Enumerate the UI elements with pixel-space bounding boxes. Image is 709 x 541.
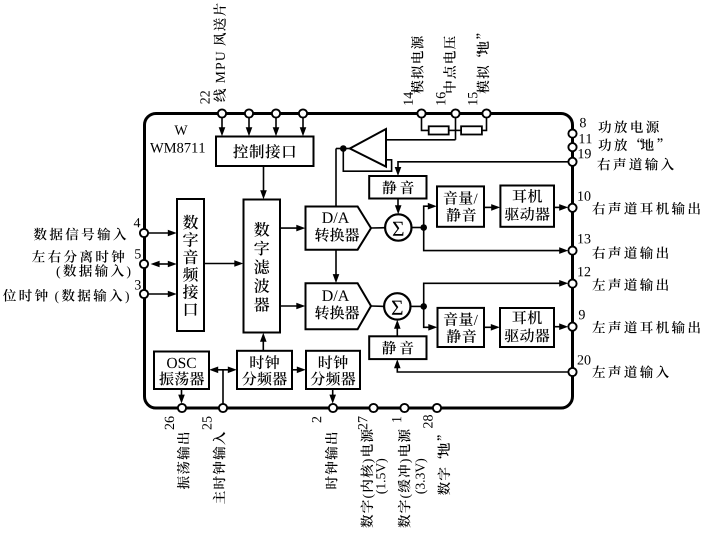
wire ctrl pin22 down-arrow <box>221 118 223 132</box>
label 右声道耳机输出 <box>592 202 700 215</box>
wire node B to pin12 left-line-out arrow <box>424 283 563 306</box>
pin right #19 <box>568 158 576 166</box>
label number 1 <box>392 417 401 422</box>
block control-interface 控制接口 <box>216 137 314 167</box>
wire mute1 to SUM1 down-arrow <box>397 199 399 210</box>
pin bottom #26 <box>178 404 186 412</box>
label pin2 时钟输出 <box>325 433 338 489</box>
label number 13 <box>578 234 590 243</box>
label pin25 主时钟输入 <box>213 432 226 504</box>
block volume-mute2 音量/静音 <box>438 308 485 347</box>
wire op-amp output down to DAC1 <box>335 149 337 207</box>
label number 28 <box>423 415 432 428</box>
label number 16 <box>436 92 445 104</box>
wire pin4 to audio-interface arrow <box>148 232 172 234</box>
wire pin20 left-channel-input to mute2 <box>397 364 568 372</box>
label number 27 <box>358 416 367 429</box>
label 功放电源 <box>598 121 658 134</box>
label pin14 模拟电源 <box>411 36 424 93</box>
wire node A to volume-mute1 arrow <box>424 206 432 227</box>
resistor R2 <box>461 126 482 134</box>
label number 19 <box>579 149 591 158</box>
wire headphone-driver2 to pin9 arrow <box>554 326 563 328</box>
wire mute2 to SUM2 up-arrow <box>396 325 398 337</box>
wire pin19 right-channel-input to mute1 <box>398 162 568 171</box>
wire ctrl pin b down-arrow <box>248 118 250 132</box>
block headphone-driver2 耳机驱动器 <box>500 308 554 347</box>
wire digital-filter to DAC2 arrow <box>280 305 300 307</box>
pin top x421.5 #14 <box>417 109 425 117</box>
label number 22 <box>200 91 209 104</box>
label number 4 <box>134 218 141 227</box>
chip label W WM8711 <box>174 126 187 135</box>
label number 14 <box>404 92 413 105</box>
pin right #11 <box>568 143 576 151</box>
pin right #20 <box>568 368 576 376</box>
block clock-divider2 时钟分频器 <box>306 351 360 389</box>
wire DAC2 to SUM2 <box>371 305 384 307</box>
wire SUM2 to node B <box>411 305 424 307</box>
label number 15 <box>468 92 477 104</box>
label number 8 <box>580 118 586 127</box>
wire clock-divider1 to clock-divider2 arrow <box>292 369 301 371</box>
label 左声道输入 <box>592 365 669 378</box>
block digital-audio-interface 数字音频接口 <box>177 199 204 331</box>
label pin27 数字(内核)电源 <box>360 429 374 527</box>
label 左声道输出 <box>592 278 668 291</box>
pin right #8 <box>568 130 576 138</box>
block oscillator OSC 振荡器 <box>154 352 209 390</box>
wire pin5 to audio-interface double-arrow <box>158 263 169 265</box>
op-amp VMID buffer <box>350 129 386 167</box>
wire volume-mute2 to headphone-driver2 arrow <box>484 326 495 328</box>
pin bottom #2 <box>329 404 337 412</box>
wire node A to pin13 right-line-out arrow <box>424 228 563 251</box>
block headphone-driver1 耳机驱动器 <box>500 186 554 227</box>
block mute2 静音 <box>369 336 426 359</box>
wire oscillator to pin26 arrow <box>181 389 183 399</box>
label number 9 <box>579 310 585 319</box>
pin left #5 <box>140 260 148 268</box>
pin left #3 <box>140 290 148 298</box>
wire oscillator to clock-divider1 double-arrow <box>214 369 232 371</box>
wire DAC1 to SUM1 <box>371 227 385 229</box>
wire op-amp output <box>336 148 350 150</box>
label number 5 <box>135 249 141 258</box>
block mute1 静音 <box>369 176 426 199</box>
wire ctrl pin c down-arrow <box>275 118 277 132</box>
resistor R1 <box>429 126 449 134</box>
label pin15 模拟地 <box>476 34 489 94</box>
pin bottom #28 <box>433 404 441 412</box>
label number 12 <box>578 267 590 276</box>
block clock-divider1 时钟分频器 <box>237 351 292 389</box>
block digital-filter 数字滤波器 <box>244 200 281 333</box>
label pin1 数字(缓冲)电源 <box>398 429 412 527</box>
label pin5 左右分离时钟 <box>32 250 124 263</box>
label number 2 <box>312 417 321 423</box>
pin top x276 <box>272 109 280 117</box>
pin top x455.5 #16 <box>451 109 459 117</box>
label pin5 (数据输入) <box>57 264 131 278</box>
pin top x249 <box>245 109 253 117</box>
wire node B to volume-mute2 arrow <box>424 306 433 327</box>
label pin22 线MPU风送片 <box>213 3 226 101</box>
block volume-mute1 音量/静音 <box>437 186 484 226</box>
wire pin16 down <box>455 118 457 140</box>
pin bottom #1 <box>400 404 408 412</box>
wire pin14 to R1 <box>422 118 429 131</box>
label pin28 数字地 <box>437 435 450 495</box>
wire R1 to R2 <box>449 129 461 131</box>
pin right #13 <box>568 247 576 255</box>
wire clock-divider1 to digital-filter up-arrow <box>262 338 264 351</box>
wire pin25 master-clock-input <box>222 370 224 404</box>
wire clock-divider2 to pin2 arrow <box>332 389 334 399</box>
label 右声道输出 <box>592 246 668 259</box>
pin top x486.5 #15 <box>482 109 490 117</box>
label number 11 <box>580 134 592 143</box>
label pin3 位时钟(数据输入) <box>3 289 129 303</box>
label number 10 <box>578 191 590 200</box>
IC body WM8711 <box>145 114 573 409</box>
label pin16 中点电压 <box>443 36 456 92</box>
label pin1 (3.3V) <box>415 459 427 494</box>
node B junction <box>420 303 427 310</box>
label pin27 (1.5V) <box>376 459 388 494</box>
pin top x222 #22 <box>218 109 226 117</box>
pin left #4 <box>140 229 148 237</box>
pin bottom #25 <box>219 404 227 412</box>
block DAC1 D/A converter <box>306 207 372 250</box>
block DAC2 D/A converter <box>306 283 372 329</box>
label number 20 <box>578 355 591 364</box>
wire op-amp feedback loop <box>343 149 391 172</box>
wire headphone-driver1 to pin10 arrow <box>554 206 563 208</box>
wire DAC1 to DAC2 down-arrow <box>335 250 337 278</box>
label 右声道输入 <box>597 158 674 171</box>
node op-amp output junction <box>340 145 347 152</box>
summer SUM1 sigma <box>385 214 411 240</box>
wire ctrl pin d down-arrow <box>302 118 304 132</box>
label pin4 数据信号输入 <box>34 228 126 241</box>
wire volume-mute1 to headphone-driver1 arrow <box>484 206 495 208</box>
label 功放“地” <box>598 138 662 151</box>
wire digital-filter to DAC1 arrow <box>280 227 300 229</box>
node A junction <box>420 224 427 231</box>
label number 26 <box>165 416 174 429</box>
label 左声道耳机输出 <box>592 321 700 334</box>
wire control-interface to digital-filter <box>263 166 265 194</box>
label pin26 振荡输出 <box>177 433 190 490</box>
wire pin3 to audio-interface arrow <box>148 293 172 295</box>
pin right #10 <box>568 204 576 212</box>
label number 3 <box>135 280 141 289</box>
pin top x303 <box>299 109 307 117</box>
summer SUM2 sigma <box>384 293 410 319</box>
pin right #12 <box>568 280 576 288</box>
pin bottom #27 <box>369 404 377 412</box>
wire vmid to op-amp noninverting input <box>386 139 456 141</box>
wire SUM1 to node A <box>412 227 424 229</box>
label number 25 <box>202 417 211 430</box>
wire audio-interface to digital-filter arrow <box>204 263 238 265</box>
pin right #9 <box>568 323 576 331</box>
wire R2 to pin15 <box>482 118 487 131</box>
